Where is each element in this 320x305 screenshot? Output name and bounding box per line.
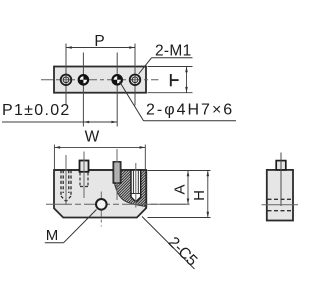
svg-text:2-M1: 2-M1 bbox=[155, 43, 192, 60]
svg-text:H: H bbox=[191, 190, 208, 201]
svg-text:A: A bbox=[172, 184, 189, 194]
svg-text:W: W bbox=[85, 129, 100, 146]
svg-text:P: P bbox=[94, 33, 104, 50]
svg-text:M: M bbox=[46, 227, 59, 244]
svg-text:2-φ4H7×6: 2-φ4H7×6 bbox=[146, 101, 234, 118]
svg-text:P1±0.02: P1±0.02 bbox=[2, 102, 71, 119]
